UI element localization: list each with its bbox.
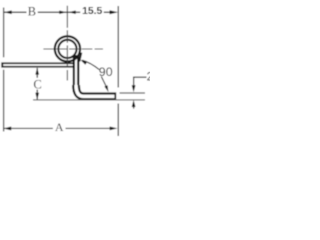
bottom reference line	[33, 99, 145, 101]
wire diameter leader with label 2	[134, 77, 147, 108]
arrow A right	[110, 127, 118, 131]
angle down arrow	[104, 85, 108, 92]
svg-text:2: 2	[147, 72, 150, 84]
angle arc leader	[82, 60, 99, 69]
coil outer circle	[55, 36, 80, 61]
coil inner circle	[58, 40, 76, 58]
angle arc arrow	[80, 60, 87, 65]
angle down leader	[101, 77, 106, 88]
arrow 15.5 left	[68, 11, 75, 14]
svg-text:B: B	[28, 4, 36, 18]
arrow C up	[35, 68, 39, 75]
wire diameter upper extension line	[120, 92, 146, 94]
right extension line	[117, 6, 119, 136]
wire left leg	[1, 62, 76, 67]
horizontal centerline	[43, 48, 103, 50]
A dimension line	[3, 127, 110, 129]
C dimension line	[36, 68, 38, 99]
arrow A left	[3, 127, 11, 131]
svg-text:A: A	[55, 120, 64, 134]
arrow B right	[59, 11, 66, 14]
left extension line	[3, 8, 5, 132]
svg-text:15.5: 15.5	[82, 6, 102, 17]
svg-text:90: 90	[99, 65, 113, 79]
arrow 15.5 right	[110, 10, 119, 14]
arrow diameter down	[132, 85, 136, 92]
arrow diameter up	[132, 100, 136, 107]
top dimension line B and 15.5	[4, 11, 111, 13]
vertical centerline	[66, 6, 68, 81]
arrow C down	[35, 93, 39, 100]
wire exit flare	[79, 53, 81, 62]
svg-text:C: C	[33, 78, 41, 92]
arrow B left	[4, 10, 12, 14]
wire right leg with 90 degree bend	[73, 55, 80, 92]
